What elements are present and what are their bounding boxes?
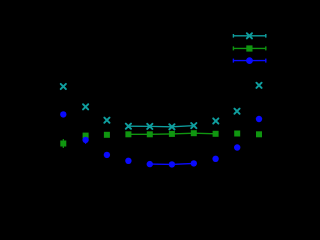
- green errorbar point 1: [62, 139, 64, 148]
- blue series connected line: [150, 163, 194, 164]
- legend entry 3: blue errorbar sample with circle marker: [233, 59, 266, 63]
- cyan series connected line: [128, 126, 193, 127]
- green square markers: [60, 130, 262, 146]
- blue errorbar point 2: [85, 137, 87, 144]
- cyan X markers: [61, 83, 262, 130]
- legend entry 2: green errorbar sample with square marker: [233, 46, 266, 50]
- blue circle markers: [60, 111, 262, 167]
- legend entry 1: cyan errorbar sample with X marker: [233, 34, 266, 38]
- green series connected line: [128, 133, 215, 134]
